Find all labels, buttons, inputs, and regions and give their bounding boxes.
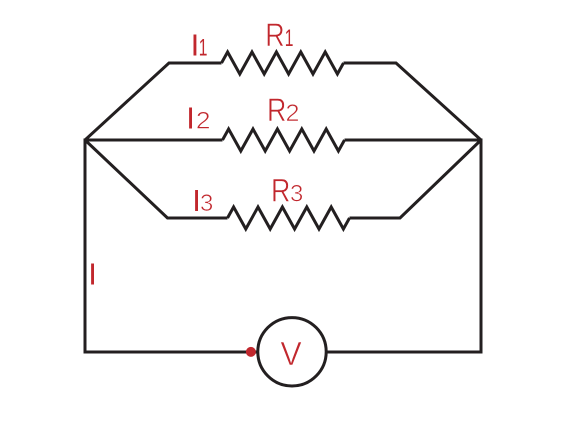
wire right side down to voltmeter: [327, 139, 481, 353]
svg-text:R: R: [265, 18, 284, 54]
svg-text:2: 2: [286, 101, 300, 127]
svg-text:R: R: [271, 173, 290, 209]
svg-text:I: I: [186, 101, 195, 136]
svg-text:1: 1: [285, 26, 294, 52]
svg-text:R: R: [267, 93, 286, 129]
node junction dot: [246, 347, 256, 357]
wire branch1 left: node A to R1: [85, 63, 222, 140]
svg-text:3: 3: [290, 181, 303, 208]
resistor R1: [222, 52, 344, 74]
wire branch2 right: R2 to node B: [345, 139, 482, 142]
wire branch2 left: node A to R2: [85, 139, 223, 142]
resistor R3: [228, 207, 350, 229]
svg-text:2: 2: [196, 108, 211, 135]
voltmeter U1 circle: [258, 318, 326, 386]
wire branch3 left: node A to R3: [85, 140, 228, 218]
wire branch1 right: R1 to node B: [344, 63, 482, 140]
resistor R2: [223, 129, 345, 151]
svg-text:I: I: [191, 28, 200, 63]
svg-text:V: V: [280, 334, 301, 372]
svg-text:I: I: [88, 257, 97, 292]
svg-text:1: 1: [199, 36, 208, 62]
wire left side down to voltmeter: [85, 139, 257, 353]
svg-text:3: 3: [200, 190, 213, 217]
wire branch3 right: R3 to node B: [350, 140, 482, 218]
